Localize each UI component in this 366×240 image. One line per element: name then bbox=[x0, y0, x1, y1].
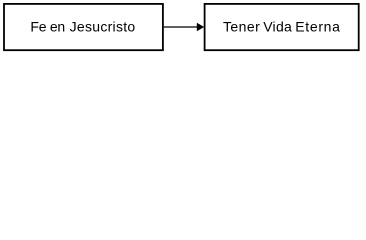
svg-text:FeenJesucristo: FeenJesucristo bbox=[30, 18, 135, 34]
svg-text:TenerVidaEterna: TenerVidaEterna bbox=[223, 18, 340, 34]
